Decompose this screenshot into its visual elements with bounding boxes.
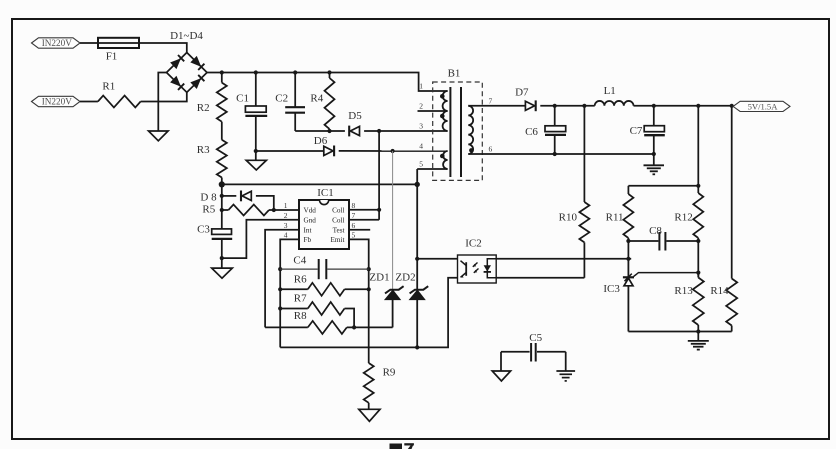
capacitor C7 [630, 106, 665, 166]
svg-text:R9: R9 [383, 367, 396, 379]
label transformer pin 2 [419, 102, 423, 111]
resistor R2 [197, 73, 227, 122]
resistor R5 [202, 204, 269, 216]
ground (bridge) [149, 131, 169, 141]
wire R3 to primary common rail [221, 178, 223, 185]
svg-text:5V/1.5A: 5V/1.5A [748, 102, 779, 112]
svg-text:6: 6 [489, 145, 493, 154]
zener ZD1 [369, 272, 403, 328]
resistor R13 [674, 273, 703, 332]
op-amp IC1 (PWM controller) [284, 187, 356, 249]
wire D5 to transformer pin 3 [364, 129, 448, 133]
svg-text:D6: D6 [314, 135, 328, 147]
capacitor C4 [280, 255, 369, 280]
svg-text:R7: R7 [294, 293, 307, 305]
svg-text:R10: R10 [559, 212, 578, 224]
shunt regulator IC3 [603, 259, 698, 332]
svg-text:2: 2 [419, 102, 423, 111]
resistor R14 [710, 106, 737, 332]
svg-text:IC3: IC3 [603, 283, 620, 295]
wire IC1 pin 2 (Gnd) to C3 [222, 220, 299, 258]
wire secondary bottom rail [628, 329, 731, 333]
resistor R11 [606, 186, 634, 261]
wire IC1 pins 8,7 (Coll) to D5 node [349, 131, 381, 220]
svg-text:4: 4 [284, 231, 288, 240]
svg-text:3: 3 [419, 122, 423, 131]
svg-text:Coll: Coll [332, 216, 344, 224]
svg-text:C7: C7 [630, 125, 643, 137]
wire transformer pin5 node to ZD2 [415, 169, 419, 290]
svg-text:7: 7 [489, 97, 493, 106]
svg-text:C4: C4 [293, 255, 306, 267]
svg-text:C2: C2 [275, 93, 288, 105]
svg-text:R2: R2 [197, 102, 210, 114]
wire bridge left vertex to ground [158, 73, 166, 132]
label transformer pin 4 [419, 142, 423, 151]
svg-text:D 8: D 8 [200, 191, 217, 203]
capacitor C3 [197, 224, 232, 269]
label transformer pin 5 [419, 160, 423, 169]
fuse F1 [98, 38, 139, 63]
svg-text:D1~D4: D1~D4 [170, 30, 203, 42]
wire C5 left to ground [500, 352, 502, 371]
svg-text:C1: C1 [236, 93, 249, 105]
wire feedback bottom rail [280, 278, 457, 350]
wire pin 6 return rail [468, 152, 656, 156]
resistor R7 [280, 293, 354, 328]
svg-text:Test: Test [333, 226, 345, 234]
wire DC+ rail to transformer pin 1 [207, 70, 448, 91]
svg-text:R1: R1 [102, 81, 115, 93]
diode D6 [314, 135, 334, 156]
svg-text:F1: F1 [106, 51, 118, 63]
label transformer pin 3 [419, 122, 423, 131]
connector IN220V (line input 1) [32, 38, 81, 48]
svg-text:5: 5 [352, 231, 356, 240]
bridge rectifier D1~D4 [167, 30, 208, 92]
inductor L1 [595, 85, 634, 106]
wire R1 to bridge bottom vertex [141, 92, 187, 101]
resistor R10 [559, 106, 590, 278]
svg-text:IC2: IC2 [465, 238, 482, 250]
connector IN220V (line input 2) [32, 96, 81, 106]
diode D7 [515, 87, 536, 112]
svg-text:4: 4 [419, 142, 423, 151]
ground (C1) [246, 160, 266, 170]
wire input1 to fuse [80, 42, 98, 44]
wire D7 to L1 [540, 104, 594, 108]
resistor R4 [310, 73, 334, 134]
svg-text:C3: C3 [197, 224, 210, 236]
wire D8 to pin 1 [256, 196, 276, 212]
svg-text:Fb: Fb [304, 236, 312, 244]
wire D6 to transformer pin 4 [339, 149, 448, 153]
svg-text:Emit: Emit [331, 236, 345, 244]
svg-text:R5: R5 [202, 204, 215, 216]
ground (C3) [212, 268, 233, 278]
svg-text:D7: D7 [515, 87, 529, 99]
svg-text:IN220V: IN220V [42, 38, 72, 48]
svg-text:D5: D5 [348, 110, 362, 122]
svg-text:IC1: IC1 [317, 187, 334, 199]
svg-text:3: 3 [284, 221, 288, 230]
resistor R6 [280, 274, 369, 296]
capacitor C8 [628, 225, 698, 251]
svg-text:R8: R8 [294, 310, 307, 322]
svg-text:Vdd: Vdd [304, 207, 317, 215]
wire R11/R12 top link [628, 184, 700, 188]
svg-text:B1: B1 [448, 68, 461, 80]
resistor R8 [265, 310, 393, 334]
wire IC1 pin 3 (Int) to R8 [265, 230, 299, 328]
connector 5V/1.5A output [733, 101, 790, 111]
wire ZD2 node to IC2 [417, 258, 457, 260]
capacitor C5 [501, 332, 566, 362]
svg-text:R14: R14 [710, 285, 729, 297]
ground (secondary earth) [688, 332, 709, 350]
wire L1 to output [634, 104, 734, 108]
wire IC1 pin 6 (Test) stub [349, 229, 370, 231]
diode D8 [200, 191, 251, 204]
wire Test line to ZD1 [392, 151, 394, 289]
svg-text:8: 8 [352, 201, 356, 210]
wire C1 to ground [255, 151, 257, 160]
ground (C7 earth) [644, 165, 665, 174]
svg-text:R3: R3 [197, 144, 210, 156]
wire IC2 to IC3 cathode [496, 258, 631, 260]
wire rail to D8/R5/C3 [220, 184, 224, 229]
zener ZD2 [395, 272, 428, 348]
label transformer pin 7 [489, 97, 493, 106]
diode D5 [348, 110, 362, 136]
svg-text:R4: R4 [310, 93, 323, 105]
capacitor C6 [525, 106, 566, 154]
resistor R12 [674, 106, 703, 278]
svg-text:Int: Int [304, 226, 312, 234]
svg-text:5: 5 [419, 160, 423, 169]
wire primary common rail [219, 181, 420, 187]
wire fuse to bridge top vertex [139, 43, 187, 53]
wire IC1 pin 4 (Fb) feedback spine [278, 239, 299, 347]
capacitor C1 [236, 73, 267, 154]
svg-text:IN220V: IN220V [42, 97, 72, 107]
wire R5 to IC1 pin 1 [269, 209, 299, 211]
wire transformer pin 5 [417, 168, 447, 170]
caption [390, 443, 414, 449]
svg-text:6: 6 [352, 221, 356, 230]
wire pin 7 to D7 [468, 105, 525, 107]
svg-text:R11: R11 [606, 212, 624, 224]
transformer B1 [433, 68, 483, 181]
svg-text:R6: R6 [294, 274, 307, 286]
svg-text:C6: C6 [525, 126, 538, 138]
wire IC2 to R10 [496, 277, 584, 279]
svg-text:ZD2: ZD2 [395, 272, 415, 284]
svg-text:R13: R13 [674, 285, 693, 297]
svg-text:L1: L1 [604, 85, 616, 97]
svg-text:2: 2 [284, 211, 288, 220]
svg-text:ZD1: ZD1 [369, 272, 389, 284]
wire R2 to R3 [221, 122, 223, 140]
wire C2/R4 to D5 [295, 130, 345, 132]
svg-text:R12: R12 [674, 212, 692, 224]
svg-text:7: 7 [352, 211, 356, 220]
wire C5 right to earth [565, 352, 567, 371]
svg-text:1: 1 [284, 201, 288, 210]
optocoupler IC2 [458, 238, 497, 284]
capacitor C2 [275, 73, 305, 132]
wire IC1 pin 5 (Emit) spine [349, 239, 371, 363]
label transformer pin 6 [489, 145, 493, 154]
label transformer pin 1 [419, 82, 423, 91]
svg-text:Gnd: Gnd [304, 216, 317, 224]
ground (C5 right earth) [556, 371, 575, 381]
resistor R3 [197, 140, 227, 178]
resistor R1 [80, 81, 141, 108]
svg-text:Coll: Coll [332, 207, 344, 215]
svg-text:1: 1 [419, 82, 423, 91]
svg-text:C8: C8 [649, 225, 662, 237]
resistor R9 [364, 363, 396, 409]
wire transformer pin 2 stub [418, 110, 448, 112]
wire C1 to D6 [256, 150, 324, 152]
ground (C5 left) [492, 371, 510, 381]
ground (R9) [359, 409, 380, 421]
svg-text:C5: C5 [529, 332, 542, 344]
